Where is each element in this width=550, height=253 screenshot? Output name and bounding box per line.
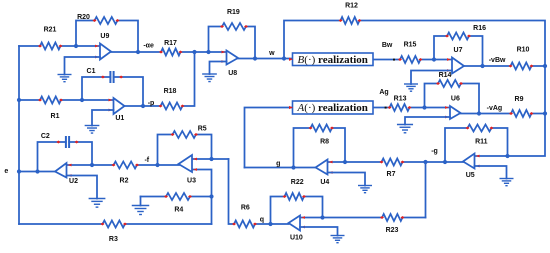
- svg-text:e: e: [4, 168, 8, 175]
- svg-text:g: g: [276, 160, 280, 167]
- op-amp U1: [109, 98, 125, 122]
- wire U9 output (-ae node): [111, 51, 161, 53]
- svg-text:R18: R18: [164, 88, 177, 95]
- svg-text:R14: R14: [439, 72, 452, 79]
- svg-text:R20: R20: [77, 14, 90, 21]
- ground U5 noninverting input: [475, 166, 514, 186]
- capacitor C2: [38, 133, 93, 171]
- svg-text:-f: -f: [144, 157, 149, 164]
- wire to R21: [19, 45, 40, 47]
- wire A block input from g node: [245, 108, 293, 168]
- wire R17 to U8 inverting input: [181, 51, 227, 53]
- svg-text:U6: U6: [451, 95, 460, 102]
- svg-text:U5: U5: [466, 172, 475, 179]
- resistor R22: [283, 179, 307, 200]
- resistor R11: [466, 125, 494, 146]
- wire R14 to U6 output: [461, 84, 479, 114]
- svg-text:C2: C2: [41, 133, 50, 140]
- wire branch up to R19: [209, 27, 223, 53]
- resistor R21: [38, 27, 63, 50]
- wire R7 to U5 output (-g node): [403, 161, 464, 163]
- wire branch up to R5: [158, 135, 173, 166]
- resistor R15: [398, 41, 423, 63]
- wire A block output (Ag node): [373, 107, 390, 109]
- svg-text:R23: R23: [386, 227, 399, 234]
- resistor R3: [101, 221, 128, 244]
- junction C2 left / e node: [35, 169, 39, 173]
- svg-text:-g: -g: [431, 148, 438, 155]
- junction -ae / R19: [206, 50, 210, 54]
- op-amp U2: [55, 163, 78, 185]
- wire R19 to w node: [246, 27, 255, 59]
- svg-text:R5: R5: [198, 125, 207, 132]
- wire w up to R12: [284, 21, 341, 59]
- svg-text:R6: R6: [241, 204, 250, 211]
- node A output port: [385, 107, 387, 109]
- junction R4 / R3 riser: [209, 194, 213, 198]
- resistor R9: [509, 96, 534, 117]
- svg-text:R12: R12: [345, 3, 358, 10]
- junction w / R12: [282, 56, 286, 60]
- wire R4 right lead: [190, 196, 212, 198]
- svg-text:-vBw: -vBw: [489, 57, 506, 64]
- resistor R6: [232, 204, 257, 227]
- ground U6 noninverting input: [397, 117, 450, 133]
- op-amp U10: [289, 216, 306, 242]
- junction -g / R11: [443, 160, 447, 164]
- wire e input vertical: [18, 46, 20, 224]
- wire -g down to R23: [425, 162, 427, 218]
- junction U7 output / R16: [480, 64, 484, 68]
- wire R13 to U6 inverting input: [410, 107, 451, 109]
- svg-text:U8: U8: [228, 70, 237, 77]
- svg-text:U3: U3: [187, 178, 196, 185]
- wire R12 along top and down right side to U5 inverting input: [360, 21, 546, 157]
- svg-text:U9: U9: [100, 33, 109, 40]
- wire g node to U4 output: [245, 167, 316, 169]
- svg-text:R17: R17: [164, 40, 177, 47]
- wire R10 to right bus: [532, 65, 546, 67]
- junction Bw / R16: [432, 57, 436, 61]
- svg-text:R1: R1: [51, 113, 60, 120]
- svg-text:R8: R8: [320, 139, 329, 146]
- junction R9 / right bus: [543, 111, 547, 115]
- resistor R7: [380, 159, 405, 179]
- junction U10 inverting input / R22: [320, 215, 324, 219]
- resistor R16: [445, 25, 486, 39]
- capacitor C1: [82, 68, 143, 106]
- ground U8 noninverting input: [202, 62, 226, 82]
- svg-text:R2: R2: [120, 178, 129, 185]
- resistor R23: [380, 214, 405, 234]
- ground U9 noninverting input: [58, 57, 101, 82]
- wire U3 inverting input: [192, 158, 229, 160]
- wire down to R18: [183, 52, 195, 106]
- junction w / R19: [253, 56, 257, 60]
- resistor R8: [309, 125, 335, 146]
- wire R22 to U10 inverting input: [304, 197, 323, 218]
- svg-text:-αe: -αe: [143, 43, 154, 50]
- wire R4 node down to R3: [211, 197, 213, 225]
- op-amp U6: [445, 95, 461, 119]
- resistor R17: [159, 40, 183, 55]
- junction C2 right / U2 inverting input: [90, 163, 94, 167]
- junction C1 right / -p: [141, 104, 145, 108]
- junction U6 output / R14: [477, 111, 481, 115]
- svg-text:U2: U2: [69, 178, 78, 185]
- wire U10 inverting input to R23: [300, 217, 382, 219]
- junction U9 output / R20: [136, 50, 140, 54]
- wire R1 to U1 inverting input: [61, 99, 114, 101]
- svg-text:R19: R19: [227, 9, 240, 16]
- svg-text:Bw: Bw: [382, 42, 393, 49]
- svg-text:R7: R7: [387, 171, 396, 178]
- wire R16 to U7 output: [469, 36, 483, 66]
- resistor R14: [436, 72, 463, 87]
- resistor R20: [77, 14, 119, 24]
- op-amp U9: [95, 33, 111, 60]
- junction -ae / R18: [192, 50, 196, 54]
- wire U8 output (w node): [238, 58, 293, 60]
- junction Ag / R14: [422, 105, 426, 109]
- junction R10 / right bus: [543, 64, 547, 68]
- resistor R4: [164, 193, 192, 214]
- wire R11 to U5 inverting input: [492, 128, 508, 156]
- svg-text:-vAg: -vAg: [487, 105, 503, 112]
- junction e node: [17, 169, 21, 173]
- junction -g / R23: [423, 160, 427, 164]
- junction R21 / R20: [74, 44, 78, 48]
- resistor R18: [159, 88, 185, 110]
- svg-text:R4: R4: [174, 207, 183, 214]
- wire U2 inverting input to R2: [67, 164, 114, 166]
- junction U3 inverting input / R5: [209, 157, 213, 161]
- node B output port: [393, 59, 395, 61]
- ground U1 noninverting input: [85, 110, 114, 133]
- ground U4 noninverting input: [328, 173, 373, 193]
- wire U6 output (-vAg node): [461, 113, 512, 115]
- wire e bottom to R3: [19, 223, 103, 225]
- wire down to R6: [229, 159, 235, 224]
- junction U4 inverting input / R8: [343, 160, 347, 164]
- ground R4: [132, 197, 150, 215]
- svg-text:U1: U1: [115, 115, 124, 122]
- wire U3 noninverting input to R4: [192, 170, 212, 197]
- wire branch up to R11: [445, 128, 468, 162]
- svg-text:Ag: Ag: [379, 89, 388, 96]
- resistor R10: [509, 47, 534, 70]
- wire R21 to U9 inverting input: [61, 45, 101, 47]
- junction q node: [268, 222, 272, 226]
- wire R2 to U3 output (-f node): [137, 164, 179, 166]
- wire branch up to R8: [294, 128, 311, 168]
- svg-text:R10: R10: [517, 47, 530, 54]
- op-amp U5: [463, 154, 480, 180]
- wire R4 left lead: [141, 196, 167, 198]
- wire e node to U2 output: [19, 171, 56, 173]
- wire R9 to right bus: [532, 113, 546, 115]
- wire branch up to R14: [425, 84, 439, 108]
- svg-text:R21: R21: [44, 27, 57, 34]
- svg-text:A(·) realization: A(·) realization: [297, 102, 368, 114]
- wire R3 to riser: [125, 223, 212, 225]
- ground U7 noninverting input: [404, 71, 452, 92]
- resistor R5: [171, 125, 207, 138]
- svg-text:U10: U10: [290, 235, 303, 242]
- svg-text:w: w: [268, 50, 275, 57]
- wire U1 output (-p node): [125, 105, 161, 107]
- svg-text:R13: R13: [394, 95, 407, 102]
- ground U10 noninverting input: [300, 227, 345, 243]
- wire branch up to R22: [271, 197, 285, 225]
- block A realization: [289, 101, 373, 114]
- junction e / R1: [17, 98, 21, 102]
- svg-text:R22: R22: [291, 179, 304, 186]
- resistor R12: [339, 3, 362, 24]
- wire R8 to U4 inverting input: [332, 128, 345, 162]
- svg-text:C1: C1: [87, 68, 96, 75]
- junction -f / R5: [155, 163, 159, 167]
- wire branch up to R20: [76, 21, 95, 47]
- op-amp U7: [447, 47, 464, 73]
- resistor R2: [112, 162, 140, 185]
- svg-text:B(·) realization: B(·) realization: [298, 54, 368, 66]
- junction R11 / summing wire: [505, 154, 509, 158]
- svg-text:R9: R9: [515, 96, 524, 103]
- resistor R19: [220, 9, 248, 30]
- op-amp U3: [179, 155, 198, 185]
- resistor R1: [38, 97, 63, 121]
- svg-text:q: q: [260, 217, 264, 224]
- svg-text:R15: R15: [404, 41, 417, 48]
- wire R20 to U9 output: [118, 21, 139, 53]
- resistor R13: [388, 95, 412, 111]
- ground U2 noninverting input: [67, 176, 106, 208]
- wire e to R1: [19, 99, 40, 101]
- wire U4 inverting input to R7: [328, 161, 382, 163]
- svg-text:-p: -p: [148, 100, 155, 107]
- wire U7 output (-vBw node): [464, 65, 511, 67]
- svg-text:R16: R16: [473, 25, 486, 32]
- junction g / R8: [291, 165, 295, 169]
- wire R5 to U3 inverting input: [196, 135, 212, 160]
- wire R23 right lead: [403, 217, 426, 219]
- svg-text:R11: R11: [475, 139, 488, 146]
- op-amp U8: [222, 51, 239, 78]
- op-amp U4: [316, 160, 333, 187]
- svg-text:R3: R3: [109, 236, 118, 243]
- wire B block output (Bw node): [373, 59, 400, 61]
- svg-text:U4: U4: [320, 179, 329, 186]
- wire R6 to U10 output (q node): [255, 223, 289, 225]
- block B realization: [289, 53, 373, 66]
- junction C1 left / U1 inverting input: [80, 98, 84, 102]
- svg-text:U7: U7: [454, 47, 463, 54]
- wire R15 to U7 inverting input: [421, 59, 453, 61]
- wire branch up to R16: [434, 36, 447, 60]
